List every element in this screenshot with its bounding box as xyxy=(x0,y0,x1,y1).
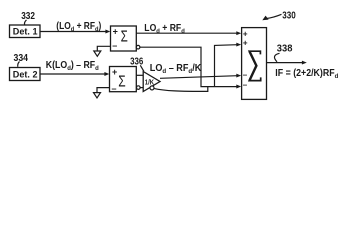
svg-text:1/K: 1/K xyxy=(145,78,155,87)
wire riser to big summer plus input 2 xyxy=(215,43,242,87)
svg-text:(LOd + RFd): (LOd + RFd) xyxy=(56,21,101,33)
svg-text:+: + xyxy=(113,27,118,37)
svg-text:+: + xyxy=(112,67,117,77)
wire amplifier to big summer minus input 1 xyxy=(160,74,241,79)
svg-text:Σ: Σ xyxy=(121,28,128,45)
detector Det. 1 xyxy=(10,25,41,38)
svg-text:+: + xyxy=(243,38,248,47)
ground for summer U2 xyxy=(94,88,110,98)
svg-text:Σ: Σ xyxy=(118,72,126,90)
wire Det.2 to summer U2 xyxy=(40,72,109,76)
svg-text:–: – xyxy=(112,41,117,51)
output wire of big summer xyxy=(267,61,307,65)
svg-text:LOd – RFd/K: LOd – RFd/K xyxy=(150,63,202,75)
big summer 330 xyxy=(242,28,267,100)
amplifier 1/K xyxy=(143,72,160,92)
svg-text:330: 330 xyxy=(282,9,296,21)
inverted output bubble of summer U2 xyxy=(137,86,144,90)
wire amplifier bubble to minus riser xyxy=(154,87,208,92)
svg-text:IF = (2+2/K)RFd: IF = (2+2/K)RFd xyxy=(275,68,338,80)
detector Det. 2 xyxy=(10,68,41,81)
inversion bubble on amplifier output xyxy=(150,86,154,90)
svg-text:–: – xyxy=(243,81,248,90)
label 338 xyxy=(274,44,292,62)
summer U1 xyxy=(111,26,137,51)
wire summer U2 to amplifier xyxy=(136,74,143,76)
label 336 xyxy=(130,56,144,71)
label 330 with curved leader arrow xyxy=(262,9,296,21)
svg-text:–: – xyxy=(243,71,248,80)
svg-text:334: 334 xyxy=(14,53,29,64)
svg-text:K(LOd) – RFd: K(LOd) – RFd xyxy=(46,60,99,72)
wire Det.1 to summer U1 xyxy=(40,30,110,34)
label 332 xyxy=(21,11,35,25)
svg-text:332: 332 xyxy=(21,11,35,22)
svg-text:336: 336 xyxy=(130,56,144,67)
label 334 xyxy=(14,53,29,67)
ground for summer U1 xyxy=(94,46,111,56)
wire from U1 bubble down to big summer minus input 2 xyxy=(140,47,241,88)
svg-text:Det. 1: Det. 1 xyxy=(13,27,38,38)
svg-text:Det. 2: Det. 2 xyxy=(13,69,38,80)
svg-text:–: – xyxy=(112,83,117,93)
summer U2 xyxy=(110,67,137,94)
svg-text:LOd + RFd: LOd + RFd xyxy=(144,23,184,35)
wire summer U1 to big summer plus input 1 xyxy=(136,31,241,35)
inverted output bubble of summer U1 xyxy=(136,45,140,49)
svg-text:+: + xyxy=(243,30,248,39)
